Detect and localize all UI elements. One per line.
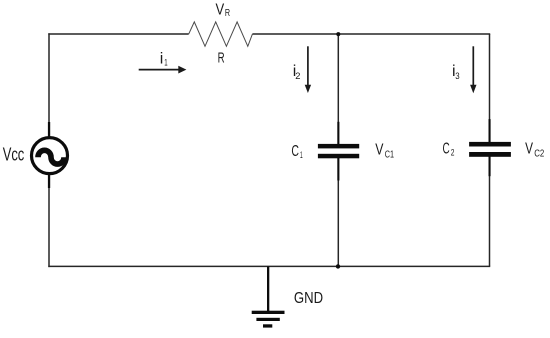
svg-text:1: 1 (164, 57, 167, 68)
svg-text:GND: GND (294, 290, 323, 307)
svg-text:C2: C2 (534, 148, 544, 159)
svg-text:Vcc: Vcc (3, 143, 25, 164)
svg-text:C1: C1 (385, 149, 395, 160)
svg-text:V: V (525, 140, 534, 157)
svg-text:C: C (291, 143, 299, 160)
svg-text:3: 3 (455, 71, 459, 82)
svg-text:R: R (218, 49, 225, 66)
svg-text:2: 2 (295, 71, 300, 82)
svg-text:V: V (375, 141, 384, 158)
svg-text:i: i (160, 50, 164, 67)
svg-text:R: R (225, 8, 230, 19)
svg-text:2: 2 (451, 147, 455, 158)
svg-text:C: C (443, 140, 450, 157)
svg-text:1: 1 (300, 150, 303, 161)
svg-text:V: V (216, 2, 225, 19)
